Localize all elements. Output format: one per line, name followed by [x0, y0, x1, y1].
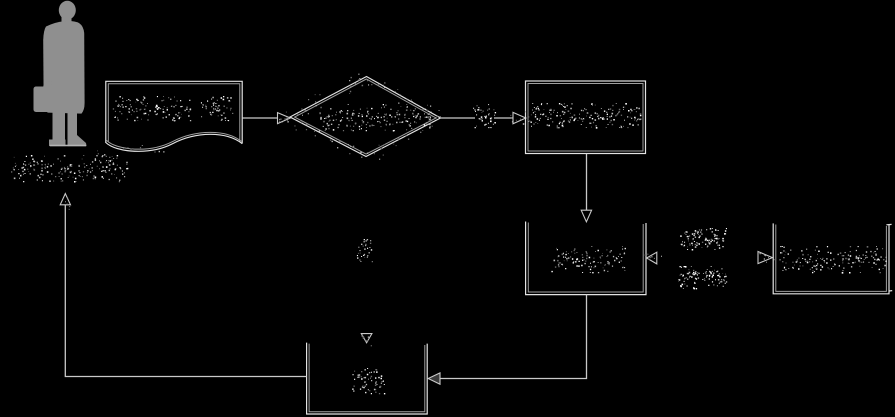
person silhouette (applicant figure) — [43, 1, 86, 146]
box2 (middle process) : no top edge — [526, 222, 646, 295]
arrowhead up at person label — [60, 194, 70, 205]
far right box (archive) : no top edge — [773, 223, 889, 293]
arrowhead into box1 — [513, 112, 526, 123]
document wavy bottom — [106, 134, 242, 151]
arrowhead into diamond — [278, 113, 291, 124]
arrowhead down into box2 — [581, 210, 591, 222]
box1 (approval process) — [526, 81, 646, 154]
bottom box (return) : no top edge — [307, 343, 428, 414]
speckled text and noise — [14, 96, 887, 394]
diamond (decision) — [290, 77, 441, 157]
arrowhead pointing right into far-right box — [758, 252, 772, 264]
wire diamond to box1 — [441, 117, 476, 119]
corner ticks far right box — [886, 223, 891, 225]
wire box2 bottom, down then left to bottom box — [441, 295, 587, 379]
return wire bottom box left edge to person — [65, 205, 306, 377]
arrowhead into bottom box right edge — [428, 373, 440, 384]
wire box1 down to box2 — [586, 154, 588, 210]
arrowhead down into bottom box — [361, 334, 372, 343]
document shape (request form) — [106, 81, 242, 143]
wire document to diamond — [243, 117, 278, 119]
person feet highlight — [50, 145, 86, 147]
person briefcase — [34, 87, 58, 113]
arrowhead pointing left into box2 right edge — [647, 252, 657, 264]
